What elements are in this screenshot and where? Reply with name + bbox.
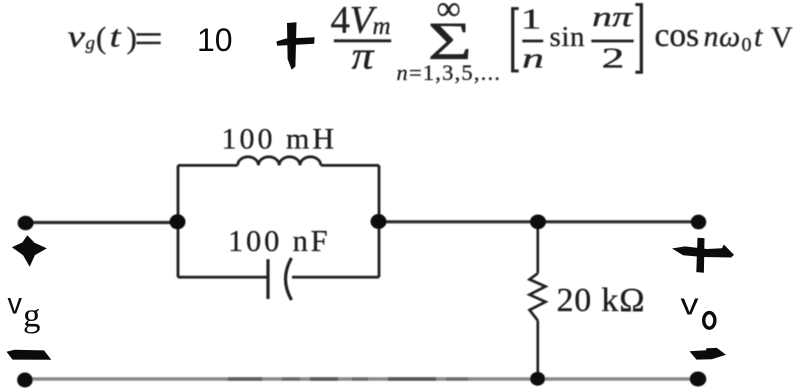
svg-text:π: π xyxy=(352,34,376,77)
wire: bottom return xyxy=(24,377,698,380)
inductor L1 100 mH xyxy=(178,157,379,166)
svg-text:100 nF: 100 nF xyxy=(228,224,330,258)
wire: loop left vertical xyxy=(177,165,180,277)
svg-text:t: t xyxy=(754,20,763,53)
polarity minus at input xyxy=(7,350,52,360)
svg-text:g: g xyxy=(86,33,96,54)
svg-text:m: m xyxy=(373,13,391,40)
polarity minus at output xyxy=(690,348,727,360)
svg-text:v: v xyxy=(8,288,23,321)
svg-text:4: 4 xyxy=(331,0,351,41)
svg-text:g: g xyxy=(23,298,41,335)
svg-text:n=1,3,5,...: n=1,3,5,... xyxy=(397,60,502,85)
fraction 4Vm/pi xyxy=(331,0,392,77)
svg-text:0: 0 xyxy=(742,34,752,56)
svg-text:2: 2 xyxy=(602,43,625,75)
polarity plus at input xyxy=(12,235,47,267)
summation sigma xyxy=(397,0,502,85)
node: tank left xyxy=(170,214,186,229)
node: load top xyxy=(530,215,546,230)
resistor R1 20 kOhm xyxy=(530,222,546,379)
plus sign (cross mark) xyxy=(276,22,314,69)
label vo xyxy=(681,287,715,329)
svg-text:n: n xyxy=(522,43,544,75)
formula v_g(t)= xyxy=(68,17,164,63)
wire: loop right vertical xyxy=(378,165,381,277)
svg-text:nπ: nπ xyxy=(592,1,634,33)
node: load bottom xyxy=(530,372,545,386)
svg-text:V: V xyxy=(771,21,793,54)
svg-text:20 kΩ: 20 kΩ xyxy=(557,282,646,319)
bracketed term [1/n sin npi/2] xyxy=(511,1,643,74)
svg-text:v: v xyxy=(68,19,86,54)
cos n omega0 t V xyxy=(655,17,794,56)
polarity plus at output xyxy=(672,238,734,273)
circuit drawing (scanned part) xyxy=(17,122,706,387)
node: output bottom xyxy=(690,372,707,387)
svg-text:t: t xyxy=(110,19,123,54)
svg-text:(: ( xyxy=(96,20,106,55)
svg-text:=: = xyxy=(134,17,163,63)
svg-text:1: 1 xyxy=(521,4,542,36)
capacitor C1 100 nF xyxy=(178,258,379,300)
node: tank right xyxy=(371,214,387,229)
wire: tank to load (top right) xyxy=(379,220,698,223)
label vg xyxy=(8,288,41,335)
svg-text:10: 10 xyxy=(197,22,233,58)
svg-text:cos: cos xyxy=(655,17,700,54)
svg-text:∞: ∞ xyxy=(437,0,461,28)
node: output top xyxy=(691,215,706,230)
svg-text:v: v xyxy=(681,287,700,322)
node: input top xyxy=(18,216,34,231)
wire: input to tank (top left) xyxy=(24,221,178,224)
node: input bottom xyxy=(17,373,33,388)
svg-text:nω: nω xyxy=(704,20,741,53)
svg-text:sin: sin xyxy=(550,21,586,53)
svg-text:100 mH: 100 mH xyxy=(222,122,338,155)
